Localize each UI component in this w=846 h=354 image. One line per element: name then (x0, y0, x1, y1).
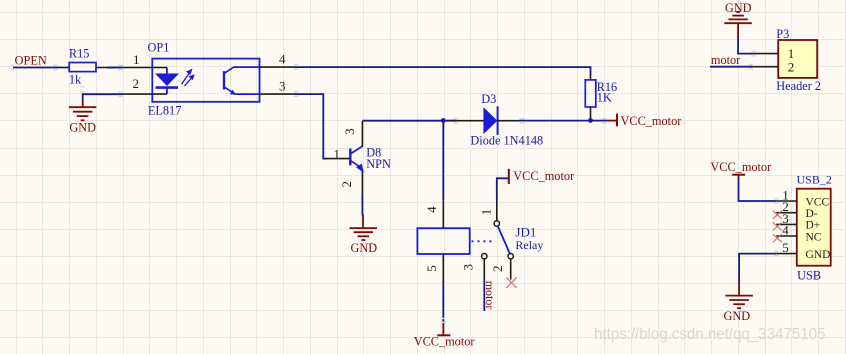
svg-text:https://blog.csdn.net/qq_33475: https://blog.csdn.net/qq_33475105 (594, 326, 825, 343)
wire joint marks (faint) (11, 51, 779, 257)
svg-text:Diode 1N4148: Diode 1N4148 (470, 133, 543, 147)
relay JD1 coil (417, 228, 469, 254)
junction node (under R16) (588, 118, 593, 123)
svg-text:GND: GND (724, 309, 751, 323)
relay JD1 coil pin 4 (442, 200, 444, 228)
svg-text:GND: GND (806, 249, 831, 261)
ground GND (left) (69, 99, 97, 121)
no-ERC cross on relay pin 2 (506, 278, 516, 288)
power port VCC_motor (relay top) (497, 178, 509, 199)
wire D3 cathode to R16 bottom node (519, 120, 591, 122)
svg-text:VCC_motor: VCC_motor (513, 169, 574, 183)
LED inside OP1 (156, 68, 178, 95)
svg-text:1k: 1k (69, 72, 82, 86)
svg-text:2: 2 (133, 76, 140, 91)
wire R15 to OP1 pin1 (96, 67, 167, 69)
ground GND (under USB) (725, 282, 753, 308)
svg-text:3: 3 (342, 128, 357, 135)
wire GND to P3 pin1 (738, 37, 753, 54)
svg-text:NPN: NPN (366, 157, 391, 171)
D8 base bar (349, 149, 351, 166)
D8 base pin (325, 158, 350, 160)
wire motor to P3 pin2 (710, 66, 752, 68)
USB pin 2 D- (776, 212, 797, 214)
resistor R16 (590, 73, 592, 80)
svg-text:OP1: OP1 (148, 40, 170, 54)
wire USB pin5 to GND (739, 254, 776, 283)
OP1 box (152, 59, 259, 102)
OP1 pin3 (260, 93, 296, 95)
svg-text:motor: motor (711, 53, 740, 67)
svg-text:4: 4 (782, 223, 789, 238)
svg-text:1: 1 (133, 52, 140, 67)
wire node to relay coil pin4 (442, 121, 444, 201)
wire OPEN to R15 (13, 67, 58, 69)
resistor R15 left pin (57, 67, 69, 69)
svg-text:Header 2: Header 2 (776, 79, 821, 93)
no-ERC cross on USB pin 4 (773, 234, 782, 242)
ground GND (under D8) (350, 215, 378, 241)
USB pin 5 GND (776, 253, 797, 255)
svg-text:GND: GND (69, 121, 96, 135)
svg-text:4: 4 (424, 206, 439, 213)
USB pin 4 NC (776, 235, 797, 237)
resistor R15 (69, 63, 96, 72)
OP1 pin4 (260, 66, 296, 68)
svg-text:2: 2 (339, 181, 354, 188)
wire OP1 pin3 to D8 base (295, 94, 327, 159)
D8 emitter (351, 161, 360, 167)
P3 pin 2 (751, 66, 778, 68)
junction node (diode row / relay) (441, 118, 446, 123)
power port VCC_motor (bottom) (442, 321, 444, 336)
svg-text:NC: NC (806, 231, 822, 243)
svg-text:3: 3 (461, 264, 476, 271)
USB pin 1 VCC (776, 200, 797, 202)
wire relay pin3 stub (483, 281, 485, 311)
svg-text:5: 5 (782, 240, 789, 255)
svg-text:OPEN: OPEN (15, 53, 47, 67)
no-ERC cross on USB pin 3 (773, 222, 782, 230)
wire OP1 pin4 to R16 (top rail) (295, 67, 591, 74)
svg-text:USB_2: USB_2 (797, 173, 832, 187)
svg-text:1K: 1K (597, 91, 612, 105)
wire D8 emitter to GND (361, 195, 363, 216)
relay switch pin 2 (508, 254, 513, 259)
phototransistor inside OP1 (224, 67, 260, 94)
wire D8 collector to node (362, 120, 456, 122)
no-ERC cross on USB pin 2 (773, 211, 782, 219)
USB pin 3 D+ (776, 223, 797, 225)
svg-text:USB: USB (797, 269, 821, 283)
svg-text:VCC_motor: VCC_motor (710, 160, 771, 174)
svg-text:D+: D+ (806, 220, 821, 232)
svg-text:Relay: Relay (515, 238, 543, 252)
relay switch arm (498, 226, 510, 254)
OP1 pin2 line (122, 93, 167, 95)
svg-text:4: 4 (279, 52, 286, 67)
wire relay pin5 to VCC_motor (442, 281, 444, 322)
svg-text:VCC: VCC (806, 196, 830, 208)
svg-text:VCC_motor: VCC_motor (414, 335, 475, 349)
wire R15 to OP1 (107, 67, 122, 69)
svg-text:2: 2 (490, 265, 505, 272)
svg-text:P3: P3 (776, 27, 789, 41)
svg-text:EL817: EL817 (148, 103, 181, 117)
relay switch pin 1 (496, 199, 498, 221)
LED light arrows (182, 70, 194, 86)
svg-text:5: 5 (424, 265, 439, 272)
relay switch pin 3 (482, 254, 487, 259)
wire VCC_motor to USB pin1 (739, 178, 777, 201)
svg-text:D3: D3 (481, 92, 496, 106)
svg-text:GND: GND (351, 241, 378, 255)
svg-text:2: 2 (788, 60, 795, 75)
relay JD1 coil pin 5 (442, 254, 444, 282)
svg-text:1: 1 (334, 146, 341, 161)
svg-text:3: 3 (279, 79, 286, 94)
relay JD1 dotted link (472, 240, 494, 242)
svg-text:motor: motor (483, 281, 497, 310)
svg-text:D-: D- (806, 208, 818, 220)
wire GND to OP1 pin2 (83, 94, 122, 99)
P3 pin 1 (753, 53, 778, 55)
svg-text:R15: R15 (69, 46, 90, 60)
power port VCC_motor (right of R16) (591, 120, 606, 122)
svg-text:1: 1 (478, 209, 493, 216)
svg-text:VCC_motor: VCC_motor (621, 114, 682, 128)
D8 collector (351, 146, 363, 154)
